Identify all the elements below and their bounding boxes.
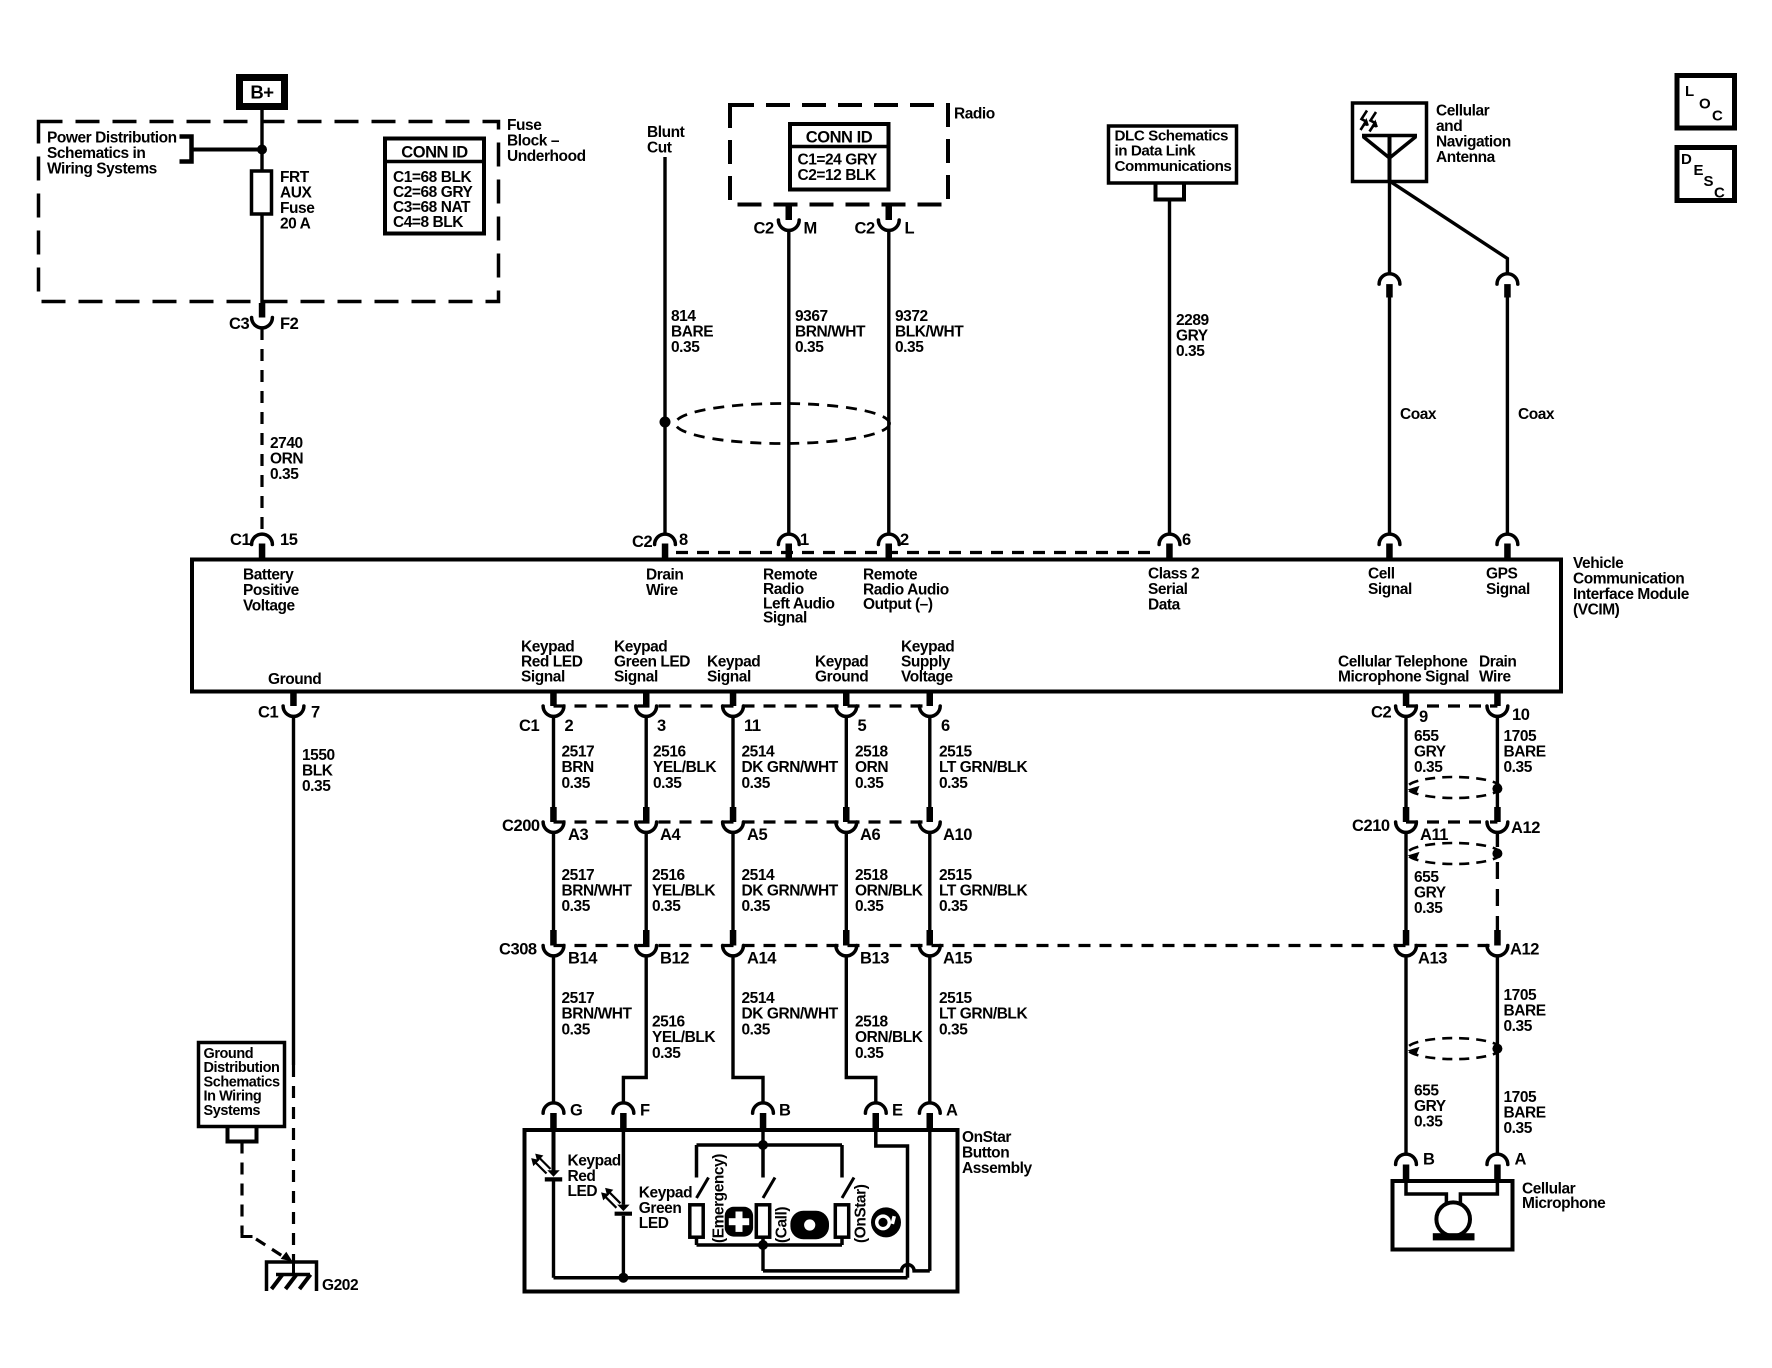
svg-text:Button: Button bbox=[962, 1145, 1009, 1162]
svg-text:A14: A14 bbox=[747, 950, 777, 968]
label 2518 ORN bbox=[855, 744, 889, 792]
svg-text:0.35: 0.35 bbox=[742, 775, 771, 792]
wire 2740 dashed bbox=[260, 328, 263, 534]
connector 2 vcim bbox=[878, 534, 899, 544]
wire splice arrow to ground bbox=[256, 1239, 284, 1257]
svg-text:2516: 2516 bbox=[652, 867, 686, 884]
svg-text:Underhood: Underhood bbox=[507, 148, 586, 165]
ground distribution box bbox=[199, 1043, 285, 1127]
switch call bbox=[763, 1178, 775, 1199]
svg-text:Data: Data bbox=[1148, 597, 1181, 614]
wire keypad green column bbox=[645, 716, 648, 807]
svg-text:A5: A5 bbox=[747, 826, 767, 844]
svg-text:Signal: Signal bbox=[707, 669, 751, 686]
svg-text:C2=12 BLK: C2=12 BLK bbox=[798, 167, 877, 184]
svg-text:Signal: Signal bbox=[614, 669, 658, 686]
wire keypad red column bbox=[552, 716, 555, 807]
svg-text:C200: C200 bbox=[502, 817, 540, 835]
icon onstar logo bbox=[871, 1207, 901, 1237]
label OnStar Button Assembly bbox=[962, 1129, 1032, 1177]
pin label Battery Positive Voltage bbox=[243, 567, 300, 615]
svg-text:0.35: 0.35 bbox=[855, 898, 884, 915]
svg-text:0.35: 0.35 bbox=[939, 1021, 968, 1038]
wire 1705 seg1 bbox=[1496, 716, 1499, 807]
svg-text:2515: 2515 bbox=[939, 990, 973, 1007]
svg-text:ORN: ORN bbox=[270, 451, 303, 468]
svg-text:2516: 2516 bbox=[652, 1014, 686, 1031]
svg-text:C: C bbox=[1714, 185, 1725, 202]
wire button block to A bbox=[761, 1245, 764, 1271]
svg-text:ORN/BLK: ORN/BLK bbox=[855, 883, 924, 900]
svg-text:2515: 2515 bbox=[939, 744, 973, 761]
inline connector gps coax bbox=[1497, 274, 1518, 284]
svg-text:YEL/BLK: YEL/BLK bbox=[652, 1029, 716, 1046]
svg-text:DK GRN/WHT: DK GRN/WHT bbox=[742, 759, 839, 776]
button onstar actuator bbox=[835, 1205, 848, 1237]
wire A down to return bbox=[928, 1131, 931, 1271]
svg-text:LT GRN/BLK: LT GRN/BLK bbox=[939, 883, 1028, 900]
inline connector cell coax bbox=[1379, 274, 1400, 284]
junction node led return bbox=[618, 1273, 628, 1283]
label 2515 LT GRN/BLK c bbox=[939, 990, 1028, 1038]
svg-text:BARE: BARE bbox=[671, 324, 713, 341]
label 9372 BLK/WHT bbox=[895, 308, 964, 356]
red led emission arrows bbox=[531, 1154, 550, 1174]
svg-text:Communications: Communications bbox=[1115, 158, 1232, 175]
pin label Class 2 Serial Data bbox=[1148, 566, 1199, 614]
button emergency actuator bbox=[690, 1205, 703, 1237]
svg-text:YEL/BLK: YEL/BLK bbox=[653, 759, 717, 776]
svg-text:1550: 1550 bbox=[302, 747, 335, 764]
svg-text:9: 9 bbox=[1419, 708, 1428, 726]
svg-text:0.35: 0.35 bbox=[1414, 900, 1443, 917]
svg-text:A15: A15 bbox=[943, 950, 972, 968]
svg-text:E: E bbox=[1694, 162, 1704, 179]
label 2518 ORN/BLK b bbox=[855, 867, 924, 915]
wire 1705 seg3 bbox=[1496, 956, 1499, 1155]
svg-text:B+: B+ bbox=[250, 82, 274, 103]
connector cell signal vcim bbox=[1379, 534, 1400, 544]
connector A4 bbox=[643, 807, 650, 822]
svg-text:Cut: Cut bbox=[647, 140, 672, 157]
wire ground ref dashed bbox=[240, 1142, 243, 1234]
DESC box bbox=[1677, 148, 1735, 201]
connector C2 L radio bbox=[886, 203, 893, 220]
pin label Drain Wire bottom bbox=[1479, 654, 1516, 686]
button block frame bbox=[697, 1145, 843, 1245]
svg-text:Wire: Wire bbox=[1479, 669, 1511, 686]
svg-text:A13: A13 bbox=[1418, 950, 1447, 968]
wire 655 seg1 bbox=[1404, 716, 1407, 807]
label 1705 BARE c bbox=[1504, 1089, 1546, 1137]
svg-text:Signal: Signal bbox=[1486, 581, 1530, 598]
connector A keypad bbox=[919, 1103, 940, 1113]
junction shield drain 3 bbox=[1492, 1044, 1502, 1054]
svg-text:2740: 2740 bbox=[270, 435, 303, 452]
label Keypad Green LED bbox=[639, 1185, 692, 1233]
svg-text:0.35: 0.35 bbox=[1414, 1114, 1443, 1131]
antenna rf waves bbox=[1361, 111, 1377, 132]
label 2516 YEL/BLK c bbox=[652, 1014, 716, 1062]
pin label Keypad Green LED Signal bbox=[614, 639, 690, 686]
wire keypad signal column bbox=[731, 716, 734, 807]
svg-text:A6: A6 bbox=[860, 826, 880, 844]
svg-text:BARE: BARE bbox=[1504, 1105, 1546, 1122]
wire red led cathode down bbox=[552, 1182, 555, 1278]
svg-text:G202: G202 bbox=[322, 1277, 358, 1294]
bracket DLC bbox=[1156, 184, 1185, 200]
svg-text:6: 6 bbox=[1182, 531, 1191, 549]
wire 2289 bbox=[1168, 200, 1171, 535]
label 1705 BARE a bbox=[1504, 728, 1546, 776]
connector 6 keypad supply bbox=[927, 692, 934, 707]
connector A6 bbox=[843, 807, 850, 822]
junction node button top bbox=[758, 1140, 768, 1150]
svg-text:A12: A12 bbox=[1510, 941, 1539, 959]
svg-text:9367: 9367 bbox=[795, 308, 828, 325]
svg-text:LT GRN/BLK: LT GRN/BLK bbox=[939, 759, 1028, 776]
wire F to green led bbox=[622, 1131, 626, 1205]
label 2740 ORN bbox=[270, 435, 303, 483]
wire keypad ground column bbox=[845, 716, 848, 807]
junction shield drain 2 bbox=[1492, 849, 1502, 859]
junction dot shield drain bbox=[660, 417, 671, 428]
svg-text:Battery: Battery bbox=[243, 567, 294, 584]
connector C308 B14 bbox=[550, 930, 557, 946]
pin label Cell Signal bbox=[1368, 566, 1412, 599]
wire 9372 bbox=[887, 230, 890, 534]
connector C1 15 vcim bbox=[252, 534, 273, 544]
wire antenna cell coax upper bbox=[1388, 181, 1391, 274]
svg-text:C2: C2 bbox=[855, 220, 875, 238]
svg-text:0.35: 0.35 bbox=[270, 466, 299, 483]
svg-text:2518: 2518 bbox=[855, 867, 889, 884]
wire keypad supply column bbox=[928, 716, 931, 807]
label Keypad Red LED bbox=[568, 1153, 621, 1201]
dashed link C308 row long bbox=[554, 944, 1498, 947]
svg-text:B: B bbox=[779, 1102, 791, 1120]
svg-text:7: 7 bbox=[311, 704, 320, 722]
svg-text:BRN/WHT: BRN/WHT bbox=[562, 883, 633, 900]
svg-text:Cell: Cell bbox=[1368, 566, 1395, 583]
svg-text:Ground: Ground bbox=[268, 671, 321, 688]
svg-text:1705: 1705 bbox=[1504, 987, 1538, 1004]
svg-text:Communication: Communication bbox=[1573, 571, 1684, 588]
svg-text:C1: C1 bbox=[230, 531, 250, 549]
pin label Keypad Signal bbox=[707, 654, 760, 686]
svg-text:F: F bbox=[640, 1102, 650, 1120]
wire B+ to fuse bbox=[260, 110, 263, 171]
bracket power distribution bbox=[180, 137, 192, 162]
wire 9367 bbox=[787, 230, 790, 534]
svg-text:DK GRN/WHT: DK GRN/WHT bbox=[742, 883, 839, 900]
connector C1 2 bbox=[550, 692, 557, 707]
svg-text:(OnStar): (OnStar) bbox=[853, 1184, 870, 1243]
svg-text:C2: C2 bbox=[1371, 704, 1391, 722]
fuse FRT AUX 20A bbox=[252, 171, 272, 214]
svg-text:1: 1 bbox=[800, 531, 809, 549]
label 2516 YEL/BLK b bbox=[652, 867, 716, 915]
svg-text:10: 10 bbox=[1512, 706, 1530, 724]
svg-text:1705: 1705 bbox=[1504, 1089, 1538, 1106]
svg-text:2289: 2289 bbox=[1176, 312, 1210, 329]
svg-text:2514: 2514 bbox=[742, 990, 776, 1007]
svg-text:GRY: GRY bbox=[1176, 328, 1209, 345]
svg-text:0.35: 0.35 bbox=[742, 1021, 771, 1038]
svg-text:LED: LED bbox=[639, 1215, 669, 1232]
svg-text:Schematics in: Schematics in bbox=[47, 145, 145, 162]
svg-text:B: B bbox=[1423, 1151, 1435, 1169]
connector C3 F2 bbox=[259, 303, 266, 318]
svg-text:2517: 2517 bbox=[562, 990, 595, 1007]
wire G to red led bbox=[552, 1131, 556, 1171]
connector G bbox=[543, 1103, 564, 1113]
pin label GPS Signal bbox=[1486, 566, 1530, 599]
DLC schematics box bbox=[1109, 126, 1237, 183]
svg-text:2517: 2517 bbox=[562, 867, 595, 884]
connector 6 vcim class2 bbox=[1159, 534, 1180, 544]
svg-text:A12: A12 bbox=[1511, 819, 1540, 837]
svg-text:A4: A4 bbox=[660, 826, 681, 844]
svg-text:2514: 2514 bbox=[742, 744, 776, 761]
svg-text:0.35: 0.35 bbox=[939, 898, 968, 915]
icon emergency cross bbox=[725, 1207, 753, 1237]
svg-text:Vehicle: Vehicle bbox=[1573, 555, 1624, 572]
icon call phone bbox=[790, 1211, 829, 1240]
svg-text:Systems: Systems bbox=[204, 1103, 261, 1119]
connector C210 A11 bbox=[1403, 807, 1410, 822]
svg-text:Signal: Signal bbox=[521, 669, 565, 686]
dashed link C210 row bbox=[1406, 820, 1497, 823]
shield ellipse mic 2 bbox=[1408, 843, 1501, 864]
CONN ID table fuse block bbox=[385, 139, 484, 234]
svg-text:0.35: 0.35 bbox=[855, 1045, 884, 1062]
svg-text:Microphone: Microphone bbox=[1522, 1195, 1606, 1212]
svg-text:FRT: FRT bbox=[280, 169, 310, 186]
svg-text:2: 2 bbox=[900, 531, 909, 549]
connector 5 bbox=[843, 692, 850, 707]
svg-text:A: A bbox=[1515, 1151, 1527, 1169]
svg-text:Cellular: Cellular bbox=[1436, 103, 1490, 120]
junction shield drain 1 bbox=[1492, 784, 1502, 794]
svg-text:0.35: 0.35 bbox=[795, 339, 824, 356]
connector A15 bbox=[927, 930, 934, 946]
connector B13 bbox=[843, 930, 850, 946]
connector C2 9 bbox=[1403, 692, 1410, 707]
svg-text:C1=24 GRY: C1=24 GRY bbox=[798, 152, 878, 169]
wire coax gps lower bbox=[1506, 298, 1509, 535]
label 655 GRY b bbox=[1414, 869, 1447, 917]
svg-text:Power Distribution: Power Distribution bbox=[47, 130, 177, 147]
wire green led cathode down bbox=[622, 1216, 625, 1278]
svg-text:G: G bbox=[570, 1102, 582, 1120]
svg-text:0.35: 0.35 bbox=[1414, 759, 1443, 776]
svg-text:Drain: Drain bbox=[646, 567, 683, 584]
svg-text:LT GRN/BLK: LT GRN/BLK bbox=[939, 1006, 1028, 1023]
svg-text:Fuse: Fuse bbox=[507, 117, 542, 134]
svg-text:0.35: 0.35 bbox=[302, 778, 331, 795]
svg-text:0.35: 0.35 bbox=[652, 898, 681, 915]
label 2515 LT GRN/BLK b bbox=[939, 867, 1028, 915]
antenna symbol bbox=[1362, 136, 1417, 182]
label Cellular Microphone bbox=[1522, 1181, 1606, 1213]
label 814 BARE bbox=[671, 308, 713, 356]
bracket ground distribution bbox=[228, 1127, 257, 1142]
svg-text:2514: 2514 bbox=[742, 867, 776, 884]
connector 11 bbox=[730, 692, 737, 707]
svg-text:Signal: Signal bbox=[1368, 581, 1412, 598]
shield ellipse mic 1 bbox=[1408, 777, 1501, 798]
svg-text:Coax: Coax bbox=[1518, 406, 1555, 423]
label 2517 BRN/WHT c200 bbox=[562, 867, 633, 915]
svg-text:0.35: 0.35 bbox=[652, 1045, 681, 1062]
svg-text:C: C bbox=[1712, 108, 1723, 125]
switch emergency bbox=[697, 1178, 709, 1199]
svg-text:Antenna: Antenna bbox=[1436, 149, 1496, 166]
label 2515 LT GRN/BLK a bbox=[939, 744, 1028, 792]
svg-text:GRY: GRY bbox=[1414, 1098, 1447, 1115]
svg-text:11: 11 bbox=[744, 717, 761, 735]
svg-text:0.35: 0.35 bbox=[1504, 1120, 1533, 1137]
fuse block dashed box bbox=[39, 122, 499, 302]
dashed link top connectors bbox=[676, 551, 1158, 554]
pin label Keypad Ground bbox=[815, 654, 868, 686]
svg-text:(Call): (Call) bbox=[774, 1207, 791, 1243]
dashed link keypad connectors bbox=[554, 704, 930, 707]
svg-text:C2: C2 bbox=[754, 220, 774, 238]
svg-text:Ground: Ground bbox=[815, 669, 868, 686]
svg-text:2: 2 bbox=[565, 717, 574, 735]
connector A12 c210 bbox=[1494, 807, 1501, 822]
svg-text:E: E bbox=[892, 1102, 903, 1120]
pin label Drain Wire top bbox=[646, 567, 683, 600]
pin label Remote Radio Left Audio Signal bbox=[763, 567, 835, 627]
wire bracket to node bbox=[192, 148, 263, 152]
svg-text:0.35: 0.35 bbox=[939, 775, 968, 792]
label 2517 BRN/WHT c308 bbox=[562, 990, 633, 1038]
svg-text:BLK/WHT: BLK/WHT bbox=[895, 324, 964, 341]
svg-text:DK GRN/WHT: DK GRN/WHT bbox=[742, 1006, 839, 1023]
label VCIM bbox=[1573, 555, 1690, 619]
antenna box bbox=[1353, 103, 1427, 182]
svg-text:Fuse: Fuse bbox=[280, 200, 315, 217]
svg-text:Class 2: Class 2 bbox=[1148, 566, 1199, 583]
svg-text:0.35: 0.35 bbox=[562, 1021, 591, 1038]
svg-text:ORN/BLK: ORN/BLK bbox=[855, 1029, 924, 1046]
label Blunt Cut bbox=[647, 124, 685, 157]
svg-text:CONN ID: CONN ID bbox=[806, 129, 873, 147]
svg-text:Interface Module: Interface Module bbox=[1573, 586, 1690, 603]
svg-text:C3: C3 bbox=[229, 315, 249, 333]
label 2518 ORN/BLK c bbox=[855, 1014, 924, 1062]
switch onstar bbox=[842, 1178, 854, 1199]
svg-text:0.35: 0.35 bbox=[895, 339, 924, 356]
svg-text:20 A: 20 A bbox=[280, 216, 311, 233]
svg-text:(VCIM): (VCIM) bbox=[1573, 602, 1620, 619]
svg-text:BLK: BLK bbox=[302, 763, 334, 780]
svg-text:Wiring Systems: Wiring Systems bbox=[47, 161, 157, 178]
svg-text:Wire: Wire bbox=[646, 582, 678, 599]
svg-text:and: and bbox=[1436, 118, 1462, 135]
svg-text:5: 5 bbox=[858, 717, 867, 735]
svg-text:Voltage: Voltage bbox=[901, 669, 954, 686]
connector C200 A3 bbox=[550, 807, 557, 822]
svg-text:8: 8 bbox=[679, 531, 688, 549]
mic internal wiring bbox=[1406, 1181, 1446, 1204]
svg-text:Positive: Positive bbox=[243, 582, 300, 599]
svg-text:GPS: GPS bbox=[1486, 566, 1517, 583]
label 655 GRY a bbox=[1414, 728, 1447, 776]
svg-text:B12: B12 bbox=[660, 950, 689, 968]
svg-text:0.35: 0.35 bbox=[562, 898, 591, 915]
svg-text:Voltage: Voltage bbox=[243, 598, 296, 615]
svg-text:C2: C2 bbox=[632, 533, 652, 551]
svg-text:D: D bbox=[1681, 151, 1692, 168]
wire 1550 solid bbox=[292, 716, 295, 1065]
svg-text:C1: C1 bbox=[258, 704, 278, 722]
label 2289 GRY bbox=[1176, 312, 1210, 360]
svg-text:C210: C210 bbox=[1352, 817, 1390, 835]
wire led return bus bbox=[554, 1276, 908, 1280]
connector A10 bbox=[927, 807, 934, 822]
wire fuse to C3 bbox=[260, 214, 263, 305]
led keypad green bbox=[615, 1205, 632, 1214]
svg-text:15: 15 bbox=[280, 531, 298, 549]
svg-text:A: A bbox=[946, 1102, 958, 1120]
svg-text:0.35: 0.35 bbox=[1504, 1018, 1533, 1035]
svg-text:Output (–): Output (–) bbox=[863, 596, 933, 613]
svg-text:GRY: GRY bbox=[1414, 885, 1447, 902]
connector E keypad bbox=[865, 1103, 886, 1113]
svg-text:BRN/WHT: BRN/WHT bbox=[562, 1006, 633, 1023]
junction node on battery feed bbox=[257, 145, 267, 155]
svg-text:Coax: Coax bbox=[1400, 406, 1437, 423]
connector 1 vcim bbox=[778, 534, 799, 544]
pin label Keypad Supply Voltage bbox=[901, 639, 954, 686]
wire antenna gps diagonal bbox=[1391, 182, 1507, 274]
svg-text:A10: A10 bbox=[943, 826, 972, 844]
svg-text:O: O bbox=[1699, 96, 1711, 113]
svg-text:6: 6 bbox=[941, 717, 950, 735]
svg-text:B13: B13 bbox=[860, 950, 889, 968]
svg-text:BRN/WHT: BRN/WHT bbox=[795, 324, 866, 341]
svg-text:C1: C1 bbox=[519, 717, 539, 735]
svg-text:0.35: 0.35 bbox=[855, 775, 884, 792]
svg-text:0.35: 0.35 bbox=[562, 775, 591, 792]
wire 814 drain blunt cut bbox=[663, 157, 666, 534]
connector B keypad bbox=[753, 1103, 774, 1113]
svg-text:A11: A11 bbox=[1420, 826, 1448, 844]
svg-text:CONN ID: CONN ID bbox=[401, 144, 468, 162]
svg-text:0.35: 0.35 bbox=[671, 339, 700, 356]
svg-text:B14: B14 bbox=[568, 950, 598, 968]
radio dashed box bbox=[730, 105, 948, 205]
svg-text:0.35: 0.35 bbox=[742, 898, 771, 915]
svg-text:2517: 2517 bbox=[562, 744, 595, 761]
wire 1705 seg2 dashed bbox=[1496, 832, 1499, 847]
svg-text:Assembly: Assembly bbox=[962, 1160, 1032, 1177]
label 2514 DK GRN/WHT c bbox=[742, 990, 839, 1038]
svg-text:1705: 1705 bbox=[1504, 728, 1538, 745]
LOC box bbox=[1677, 76, 1735, 129]
wire ground ref elbow bbox=[242, 1228, 253, 1237]
svg-text:9372: 9372 bbox=[895, 308, 928, 325]
svg-text:M: M bbox=[804, 220, 817, 238]
svg-text:0.35: 0.35 bbox=[1176, 343, 1205, 360]
svg-text:Blunt: Blunt bbox=[647, 124, 685, 141]
connector A13 bbox=[1403, 930, 1410, 946]
connector C2 M radio bbox=[786, 203, 793, 220]
